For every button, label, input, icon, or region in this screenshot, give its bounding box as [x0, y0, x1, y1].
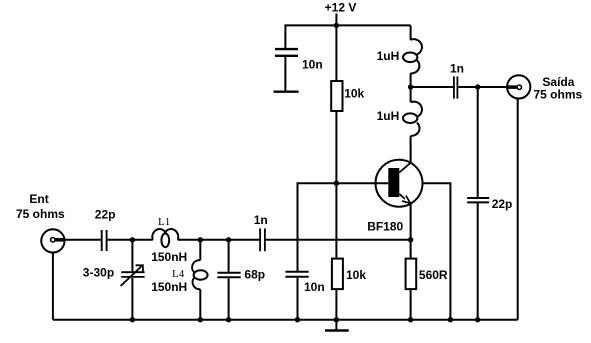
value 10n (bypass): [304, 280, 325, 294]
svg-text:Ent: Ent: [29, 192, 48, 206]
resistor 10k (upper bias): [331, 81, 342, 111]
node trimmer junction: [130, 237, 135, 242]
wire output cap to connector: [458, 86, 507, 88]
capacitor C 3-30p trimmer: [121, 265, 145, 286]
connector J1 input: [41, 229, 64, 252]
svg-text:3-30p: 3-30p: [83, 265, 114, 279]
node rail junction emitter: [408, 317, 413, 322]
svg-text:10n: 10n: [304, 280, 325, 294]
value 68p: [244, 268, 265, 282]
wire connector to ground rail: [517, 98, 519, 319]
svg-text:BF180: BF180: [367, 220, 403, 234]
wire rail down to R1: [335, 25, 337, 81]
svg-text:68p: 68p: [244, 268, 265, 282]
svg-text:1n: 1n: [254, 213, 268, 227]
node rail junction shield: [448, 317, 453, 322]
node L4 junction: [198, 237, 203, 242]
wire shield lead: [423, 183, 451, 320]
capacitor C 10n (base bypass): [285, 272, 308, 277]
wire C8 to ground rail: [477, 203, 479, 319]
value 22p (output): [492, 197, 513, 211]
connector J2 output: [507, 75, 530, 98]
wire input to C2: [64, 239, 101, 241]
wire emitter down: [410, 203, 412, 240]
svg-text:L4: L4: [172, 268, 185, 280]
svg-text:150nH: 150nH: [151, 280, 187, 294]
node rail junction 68p: [226, 317, 231, 322]
transistor Q1 BF180: [376, 160, 423, 207]
designator L4: [172, 268, 185, 280]
wire R3 to ground rail: [410, 289, 412, 320]
svg-text:150nH: 150nH: [151, 250, 187, 264]
svg-text:75 ohms: 75 ohms: [534, 87, 583, 101]
node +12V label: [325, 1, 357, 15]
node Saida label: [534, 75, 583, 101]
resistor 560R emitter: [406, 259, 417, 290]
node rail junction bypass: [295, 317, 300, 322]
value 3-30p: [83, 265, 114, 279]
resistor 10k (lower bias): [332, 259, 343, 290]
value 150nH (L1): [151, 250, 187, 264]
wire C1 to ground bar: [284, 57, 286, 91]
svg-text:1n: 1n: [450, 61, 464, 75]
wire 68p node down: [228, 240, 230, 272]
node output junction: [475, 84, 480, 89]
svg-text:75 ohms: 75 ohms: [16, 207, 65, 221]
wire between chokes: [410, 73, 412, 102]
wire trimmer to ground rail: [131, 278, 133, 320]
wire base to bypass: [298, 183, 337, 271]
wire trimmer node down: [131, 240, 133, 272]
node supply junction: [334, 23, 339, 28]
node choke tap junction: [408, 84, 413, 89]
wire 68p to ground rail: [228, 278, 230, 319]
value 10k (upper): [344, 87, 364, 101]
value 150nH (L4): [151, 280, 187, 294]
capacitor C 22p (output): [467, 198, 489, 202]
value 22p (input): [95, 207, 116, 221]
svg-text:L1: L1: [158, 216, 170, 228]
wire rail to L2 top: [410, 25, 412, 40]
capacitor C 22p (input coupling): [102, 230, 107, 251]
value 560R: [419, 268, 448, 282]
svg-text:22p: 22p: [95, 207, 116, 221]
node base junction: [334, 181, 339, 186]
svg-text:10n: 10n: [302, 58, 323, 72]
wire emitter to R3: [410, 240, 412, 259]
designator L1: [158, 216, 170, 228]
wire R2 to ground rail: [335, 289, 337, 320]
wire choke to collector: [410, 136, 412, 163]
svg-text:+12 V: +12 V: [325, 1, 357, 15]
inductor 1uH (lower collector choke): [403, 102, 422, 136]
wire output node to C8: [477, 87, 479, 197]
wire +12V stub: [335, 14, 337, 26]
wire L1 to L4 node: [178, 239, 259, 241]
wire R1 to base node: [335, 111, 337, 183]
svg-text:22p: 22p: [492, 197, 513, 211]
value BF180: [367, 220, 403, 234]
wire 1n cap to emitter node: [266, 239, 411, 241]
node 68p junction: [226, 237, 231, 242]
node Ent label: [16, 192, 65, 221]
svg-text:10k: 10k: [346, 268, 366, 282]
value 1n (emitter): [254, 213, 268, 227]
value 10n (supply): [302, 58, 323, 72]
value 1uH (upper): [377, 49, 400, 63]
wire C2 to trimmer node: [108, 239, 153, 241]
svg-text:10k: 10k: [344, 87, 364, 101]
wire base: [336, 182, 388, 184]
value 10k (lower): [346, 268, 366, 282]
capacitor C 68p: [217, 273, 240, 278]
wire ground rail: [53, 319, 518, 321]
wire base node down through to R2: [335, 183, 337, 258]
capacitor C 10n (supply decoupling): [275, 49, 298, 56]
wire L4 to ground rail: [199, 289, 201, 319]
node rail junction trimmer: [130, 317, 135, 322]
inductor L1: [152, 229, 178, 247]
inductor 1uH (upper collector choke): [403, 39, 422, 73]
wire L4 node down: [199, 240, 201, 260]
value 1n (output): [450, 61, 464, 75]
wire top supply rail: [285, 24, 410, 26]
value 1uH (lower): [377, 109, 400, 123]
node rail junction 22p: [475, 317, 480, 322]
capacitor C 1n (emitter coupling): [260, 228, 265, 251]
wire connector to ground rail: [52, 253, 54, 320]
node rail junction L4: [198, 317, 203, 322]
inductor L4: [192, 260, 208, 289]
svg-text:560R: 560R: [419, 268, 448, 282]
capacitor C 1n (output coupling): [454, 76, 458, 98]
wire bypass to ground rail: [297, 278, 299, 320]
wire tap to output cap: [411, 86, 453, 88]
node rail junction divider: [334, 317, 339, 322]
node emitter junction: [408, 237, 413, 242]
svg-text:1uH: 1uH: [377, 49, 400, 63]
wire rail to C1: [284, 24, 286, 48]
ground (below supply capacitor): [274, 90, 299, 92]
svg-text:1uH: 1uH: [377, 109, 400, 123]
ground (main): [325, 320, 349, 331]
